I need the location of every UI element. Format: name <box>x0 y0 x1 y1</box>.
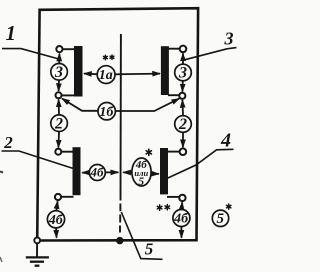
label circle 1b <box>98 103 115 120</box>
terminal T5 (E3 top) <box>55 149 61 155</box>
label 2 <box>3 133 13 152</box>
svg-text:4б: 4б <box>90 165 105 180</box>
terminal T4 (E2 bottom) <box>179 93 185 99</box>
label 4 <box>220 130 231 152</box>
svg-text:5: 5 <box>138 176 144 188</box>
svg-text:1: 1 <box>6 21 17 45</box>
leader line for label 5 <box>121 212 162 259</box>
leader line for label 2 <box>2 151 73 168</box>
label 5 <box>145 239 154 258</box>
svg-text:5: 5 <box>217 211 225 227</box>
svg-text:2: 2 <box>54 115 63 132</box>
svg-text:3: 3 <box>224 28 234 48</box>
center partition line (solid part) <box>120 34 122 201</box>
ground terminal node <box>34 238 40 244</box>
arrow from circle 1a to E2 <box>115 73 160 76</box>
electrode bar E3 (bottom-left) <box>73 147 81 195</box>
svg-text:5: 5 <box>145 239 154 258</box>
terminal T6 (E3 bottom) <box>55 194 61 200</box>
arrow from circle 4b-br to T8 <box>181 202 184 209</box>
ground <box>26 243 49 266</box>
arrow from circle 3L to T2 <box>58 80 60 91</box>
arrow from circle 3L to T1 <box>58 54 60 64</box>
wire: E1 bottom lead <box>62 94 76 96</box>
terminal T1 (E1 top) <box>56 46 62 52</box>
enclosure rectangle (device body) <box>37 8 198 240</box>
electrode bar E4 (bottom-right) <box>160 148 168 194</box>
label 3 <box>224 28 234 48</box>
arrow from circle 3R to T4 <box>181 81 183 92</box>
arrow from circle 3R to T3 <box>182 53 184 64</box>
leader line for label 4 <box>167 149 234 178</box>
arrow from circle 1a to E1 <box>84 73 97 76</box>
wire: E4 bottom lead <box>167 196 179 198</box>
asterisk pair below electrode E4 <box>157 205 169 211</box>
leader line for label 3 <box>185 48 237 60</box>
label circle 3 (left) <box>51 64 68 81</box>
label circle 3 (right) <box>175 64 192 82</box>
svg-text:3: 3 <box>178 65 187 82</box>
leader line for label 1 <box>2 49 58 59</box>
electrode bar E2 (top-right) <box>161 46 169 95</box>
label 1 <box>6 21 17 45</box>
wire: E4 top lead <box>167 151 180 153</box>
arrow from circle 4b-mid to E3 <box>82 172 89 174</box>
wire: E3 top lead <box>62 151 74 153</box>
asterisk pair above circle 1a <box>104 55 114 60</box>
asterisk near circle 5 <box>227 204 231 209</box>
arrow from circle 4b-bl to T6 <box>56 201 57 210</box>
label oval 4b-or-5 <box>132 158 151 188</box>
svg-text:3: 3 <box>54 64 63 81</box>
electrode bar E1 (top-left) <box>74 46 83 97</box>
arrow from circle 4b-mid to center line <box>105 171 118 173</box>
label circle 4b (bottom-left) <box>47 211 64 228</box>
arrow from circle 4b-bl to bottom wire <box>55 228 57 238</box>
svg-text:2: 2 <box>178 116 187 133</box>
label circle 5 (bottom-right corner) <box>212 210 228 227</box>
center partition line (dashed part) <box>119 204 121 233</box>
arrow from oval to E4 <box>151 173 159 175</box>
label circle 4b (mid-left) <box>89 165 105 181</box>
label circle 2 (right) <box>175 116 192 134</box>
asterisk above oval <box>146 149 151 155</box>
wire: E3 bottom lead <box>61 196 74 198</box>
arrow from circle 2R to T4 <box>181 100 184 116</box>
terminal T2 (E1 bottom) <box>56 92 62 98</box>
svg-text:4б: 4б <box>48 213 64 228</box>
svg-text:2: 2 <box>3 133 13 152</box>
terminal T3 (E2 top) <box>180 46 187 53</box>
arrow from circle 2L to T2 <box>58 99 60 114</box>
wire: E2 bottom lead <box>168 94 179 96</box>
arrow from circle 1b to T4 <box>116 99 180 111</box>
arrow from circle 2R to T7 <box>182 133 184 148</box>
terminal T7 (E4 top) <box>180 148 187 155</box>
terminal T8 (E4 bottom) <box>179 195 185 201</box>
svg-text:4: 4 <box>220 130 231 152</box>
arrow from circle 4b-br to bottom wire <box>180 227 182 238</box>
scan smudge left edge mid <box>0 172 3 173</box>
arrow from circle 2L to T5 <box>57 132 60 148</box>
junction dot node on bottom wire <box>116 237 123 244</box>
wire: E2 top lead <box>168 48 180 50</box>
arrow from circle 1b to T2 <box>62 99 98 111</box>
svg-text:1а: 1а <box>99 68 113 83</box>
svg-text:1б: 1б <box>99 105 114 120</box>
svg-text:4б: 4б <box>173 212 189 227</box>
label circle 1a <box>97 66 115 84</box>
wire: E1 top lead <box>63 48 76 50</box>
scan smudge left edge bottom <box>0 257 2 262</box>
arrow from oval to center line <box>123 171 132 173</box>
label circle 4b (bottom-right) <box>173 210 190 227</box>
label circle 2 (left) <box>51 115 68 133</box>
